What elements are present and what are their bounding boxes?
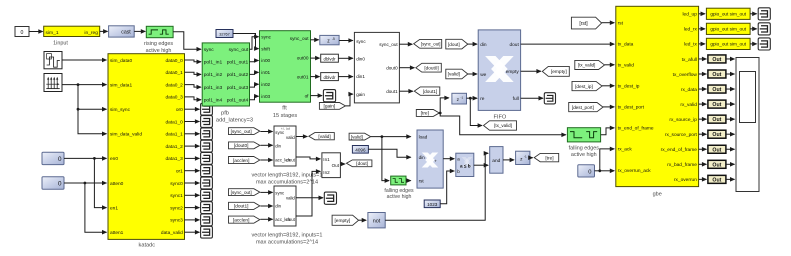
from tag dout0 to acc0 [229,142,274,149]
terminator for katadc data1_3 [185,153,213,165]
svg-text:dout: dout [286,217,295,222]
wire and to delay z-1 [503,158,515,163]
terminator for katadc sync2 [185,202,213,214]
from tag dout to fifo din [446,39,478,49]
svg-text:[acclen]: [acclen] [233,217,250,223]
svg-text:tx_end_of_frame: tx_end_of_frame [618,126,654,132]
svg-text:pol1_in2: pol1_in2 [204,72,223,78]
terminator for fifo full [521,93,556,104]
svg-text:din1: din1 [356,74,365,79]
svg-text:sync3: sync3 [170,218,183,224]
svg-text:Out: Out [712,117,721,123]
goto tag dout1 [399,87,439,95]
terminator for katadc sync1 [185,189,213,201]
svg-text:din: din [480,42,487,48]
svg-text:in_reg: in_reg [84,30,98,36]
svg-text:data1_1: data1_1 [165,132,183,138]
goto tag dout [340,160,372,167]
goto tag empty [521,66,570,76]
source block pulse train [44,74,62,92]
constant 0 for en0 en1 [42,152,64,164]
svg-text:rx_bad_frame: rx_bad_frame [667,162,697,168]
svg-text:+: + [434,159,437,164]
svg-text:15 stages: 15 stages [273,113,297,119]
svg-text:4096: 4096 [355,148,366,153]
svg-text:[acclen]: [acclen] [233,158,250,164]
from tag sync_out to acc1 [229,189,274,196]
svg-text:[empty]: [empty] [551,69,567,75]
svg-text:[gain]: [gain] [324,104,336,110]
wire counter to comparator a [443,156,455,161]
wire convert0 to quant din0 [338,56,353,61]
from tag dest_port [569,103,615,112]
svg-text:tx_dest_ip: tx_dest_ip [618,84,640,90]
svg-text:tx_afull: tx_afull [682,57,697,63]
svg-text:Out: Out [332,163,340,168]
svg-text:gpio_out sim_out: gpio_out sim_out [710,42,746,47]
svg-text:or0: or0 [176,107,183,113]
svg-text:falling edges: falling edges [569,146,600,152]
svg-text:rx_valid: rx_valid [680,102,697,108]
svg-text:Out: Out [712,162,721,168]
block fft [260,31,311,119]
svg-text:add_latency=3: add_latency=3 [216,117,253,123]
from tag tre [416,110,439,117]
svg-text:[tre]: [tre] [421,111,429,117]
from tag dout1 to acc1 [229,202,274,209]
svg-text:sim_data_valid: sim_data_valid [110,132,142,138]
wire pfb pol1_out1 to fft in00 [250,58,260,63]
from tag gain [319,92,353,110]
wire pfb pol1_out2 to fft in01 [250,70,260,75]
svg-text:[sync_out]: [sync_out] [421,42,441,47]
svg-text:sync: sync [204,48,215,53]
wire falling edge to counter rst [406,178,412,183]
svg-text:gpio_out sim_out: gpio_out sim_out [710,27,746,32]
svg-text:gpio_out sim_out: gpio_out sim_out [710,12,746,17]
svg-text:of: of [305,94,310,99]
svg-text:Out: Out [712,102,721,108]
svg-text:[tre]: [tre] [545,155,553,161]
svg-text:tx_valid: tx_valid [618,63,635,69]
svg-text:[sync_out]: [sync_out] [231,129,252,134]
svg-text:In1: In1 [323,157,330,162]
terminator for katadc sync0 [185,177,213,189]
svg-text:[valid]: [valid] [351,134,363,139]
svg-text:dout1: dout1 [386,89,398,94]
svg-text:[dest_port]: [dest_port] [572,105,594,110]
outport tx_overflow [699,70,736,78]
svg-text:dblvdr: dblvdr [324,56,336,61]
svg-text:full: full [513,96,519,102]
outport rx_source_port [699,130,736,138]
terminator for katadc data1_2 [185,140,213,152]
svg-text:vector length=8192, inputs=1: vector length=8192, inputs=1 [252,233,323,239]
block quant subsystem [354,32,399,103]
source block pulse generator [44,52,62,69]
svg-text:rising edges: rising edges [144,41,173,47]
svg-text:dblvdr: dblvdr [324,75,336,80]
wire acc1 valid to terminator [296,192,337,204]
svg-text:pol1_out3: pol1_out3 [227,85,249,91]
svg-text:tx_overflow: tx_overflow [673,72,698,78]
block katadc [108,54,185,249]
wire pfb pol1_out4 to fft in03 [250,94,260,100]
svg-text:active high: active high [387,194,412,200]
svg-text:en0: en0 [110,156,118,162]
goto tag tx_valid [484,121,517,130]
svg-text:[tx_valid]: [tx_valid] [578,63,595,68]
svg-text:1023: 1023 [427,202,438,207]
svg-text:[dest_ip]: [dest_ip] [575,84,593,89]
svg-text:rst: rst [618,21,624,27]
svg-text:pol1_in1: pol1_in1 [204,60,223,66]
svg-text:[tx_valid]: [tx_valid] [494,123,512,128]
wire 4096 to counter din [368,149,411,159]
svg-text:rst: rst [419,179,425,184]
svg-text:data0_3: data0_3 [165,95,183,101]
terminator for fft of [311,90,336,102]
block edge detect rising edges active high [144,26,173,54]
from tag valid to fifo we [446,69,478,79]
svg-text:led_tx: led_tx [684,42,697,48]
svg-text:active high: active high [571,152,597,158]
constant 0 (sim input) [15,27,29,37]
svg-text:dout: dout [509,42,519,48]
svg-text:data1_3: data1_3 [165,156,183,162]
svg-text:atten0: atten0 [110,181,124,187]
wire 1023 to comparator b [440,169,455,204]
svg-text:din0: din0 [356,57,365,62]
svg-text:empty: empty [506,69,520,75]
wire pfb pol1_out3 to fft in02 [250,82,260,87]
wire shift constant to fft shift [233,34,259,51]
svg-text:rx_source_port: rx_source_port [665,132,698,138]
block cast [109,26,135,37]
svg-text:dout0: dout0 [386,65,398,70]
svg-text:sync: sync [275,190,285,195]
terminator for katadc data1_1 [185,128,213,140]
block accumulator 0 [274,126,296,166]
wire in_reg to cast [100,29,109,34]
svg-text:sync_out: sync_out [290,36,309,41]
svg-text:sync_out: sync_out [379,42,398,47]
svg-text:or1: or1 [176,169,183,175]
svg-text:en1: en1 [110,205,118,211]
block falling edge 1 [384,176,414,200]
svg-text:data0_2: data0_2 [165,82,183,88]
svg-text:valid: valid [286,195,295,200]
wire atten constant to katadc atten0 atten1 [64,181,107,235]
convert block 1 [311,73,339,81]
svg-text:out01: out01 [297,75,309,80]
block sim_1 / in_reg (1input) [44,26,100,46]
svg-text:tx_dest_port: tx_dest_port [618,105,645,111]
goto tag sync_out [399,39,441,48]
wire katadc data0_3 to pfb pol1_in4 [185,97,202,102]
svg-text:gain: gain [356,92,365,97]
wire 0 to gbe rx_ack rx_overrun_ack [595,147,616,174]
svg-text:dout: dout [286,158,295,163]
wire katadc data0_1 to pfb pol1_in2 [185,72,202,77]
svg-text:din: din [275,144,281,149]
svg-text:[sync_out]: [sync_out] [231,190,252,195]
wire rising edge to pfb sync [173,32,202,52]
svg-text:load: load [419,135,428,140]
svg-text:Out: Out [712,147,721,153]
svg-text:pol1_out1: pol1_out1 [227,60,249,66]
svg-text:shift: shift [261,46,270,51]
wire delay to fifo re and tx_valid goto [467,96,483,128]
gpio_out block for led_rx [699,23,771,35]
block gbe [616,6,699,197]
svg-text:not: not [373,219,381,225]
svg-text:Out: Out [712,132,721,138]
svg-text:din: din [419,155,426,160]
svg-text:-1: -1 [461,95,464,99]
block comparator a<=b [456,153,474,176]
svg-text:[dout1]: [dout1] [234,204,249,210]
outport rx_bad_frame [699,160,736,168]
wire source2 to katadc sim_data1 sim_sync sim_data_valid [62,82,107,136]
svg-text:Out: Out [712,72,721,78]
svg-text:and: and [492,158,500,164]
goto tag dout0 [399,63,441,72]
svg-text:tx_data: tx_data [618,42,634,48]
wire fifo dout to gbe tx_data [521,42,615,47]
svg-text:[dout0]: [dout0] [424,65,438,70]
goto tag valid [309,133,335,140]
svg-text:sim_data1: sim_data1 [110,82,132,88]
outport rx_valid [699,100,736,108]
svg-text:active high: active high [146,48,172,54]
svg-text:0: 0 [58,156,62,163]
constant 0 for rx_ack [578,165,595,177]
wire convert1 to quant din1 [338,74,353,79]
wire source1 to katadc sim_data0 [62,58,107,63]
svg-text:sync0: sync0 [170,181,183,187]
svg-text:In2: In2 [323,170,330,175]
wire acc1 dout to In2 [296,169,321,216]
wire cast to rising edge block [134,29,146,34]
wire valid to falling edge [382,137,390,183]
block FIFO [478,30,520,121]
svg-text:gbe: gbe [653,192,662,198]
svg-text:re: re [480,96,485,102]
svg-text:[dout0]: [dout0] [234,143,249,149]
terminator for katadc or0 [185,103,213,115]
wire constant0 to sim_1 [29,29,44,34]
from tag acclen to acc0 [229,157,274,164]
svg-text:sync1: sync1 [170,193,183,199]
svg-text:[dout1]: [dout1] [423,89,437,94]
svg-text:[dout]: [dout] [448,42,460,47]
svg-text:in01: in01 [261,70,270,75]
from tag empty to not [332,215,367,225]
constant 0 for atten0 atten1 [42,177,64,189]
svg-text:rx_overrun_ack: rx_overrun_ack [618,168,652,174]
svg-text:pol1_in3: pol1_in3 [204,85,223,91]
svg-text:valid: valid [286,135,295,140]
block and gate [490,147,503,174]
svg-text:sim_sync: sim_sync [110,107,131,113]
terminator for katadc or1 [185,165,213,177]
block falling edge 2 eof [567,128,600,158]
svg-text:0: 0 [588,169,591,175]
wire tre to delay and eof branch [439,96,567,138]
svg-text:rx_end_of_frame: rx_end_of_frame [661,147,698,153]
wire delay to quant sync [339,38,354,43]
svg-text:Out: Out [712,57,721,63]
from tag sync_out to acc0 [229,128,274,135]
outport rx_overrun [699,175,736,183]
svg-text:[rst]: [rst] [579,21,588,27]
wire acc0 valid to goto valid [296,134,308,139]
wire falling edge2 to gbe tx_end_of_frame [601,126,615,135]
svg-text:pol1_out4: pol1_out4 [227,97,249,103]
wire comparator to and [474,163,489,168]
wire pfb sync_out to fft sync [250,34,260,49]
svg-text:pol1_out2: pol1_out2 [227,72,249,78]
svg-text:led_rx: led_rx [684,27,698,33]
svg-text:1input: 1input [53,41,68,47]
svg-text:in03: in03 [261,94,270,99]
wire katadc data0_0 to pfb pol1_in1 [185,60,202,65]
svg-text:-1: -1 [524,155,527,159]
svg-text:fft: fft [282,106,287,112]
outport rx_data [699,85,736,93]
block not [368,213,385,228]
constant 4096 [352,146,368,154]
svg-text:data_valid: data_valid [161,230,183,236]
block counter [417,130,443,188]
convert block 0 [311,54,339,62]
wire en constant to katadc en0 en1 [64,156,107,210]
block accumulator 1 [274,186,296,226]
svg-text:in00: in00 [261,58,270,63]
svg-text:32767: 32767 [219,33,230,37]
svg-text:FIFO: FIFO [494,114,507,120]
delay z-5 [311,35,340,44]
svg-text:katadc: katadc [139,242,156,248]
svg-text:max accumulations=2^14: max accumulations=2^14 [256,179,318,185]
svg-text:din: din [275,204,281,209]
svg-text:rx_ack: rx_ack [618,147,633,153]
gpio_out block for led_tx [699,38,771,50]
svg-text:sync2: sync2 [170,205,183,211]
mux display block [736,58,759,192]
svg-text:0: 0 [58,180,62,187]
svg-text:in02: in02 [261,82,270,87]
svg-text:Out: Out [712,87,721,93]
svg-text:max accumulations=2^14: max accumulations=2^14 [256,240,318,246]
gpio_out block for led_up [699,8,771,20]
svg-text:pfb: pfb [221,111,229,117]
svg-text:data1_2: data1_2 [165,144,183,150]
svg-text:data1_0: data1_0 [165,119,183,125]
text acc1 parameters [252,233,323,246]
svg-text:[dout]: [dout] [356,161,368,166]
from tag acclen to acc1 [229,216,274,223]
svg-text:[empty]: [empty] [334,218,350,224]
text acc0 parameters [252,172,323,185]
delay z-1 after and [516,151,530,164]
svg-text:Out: Out [712,177,721,183]
constant 1023 [424,200,440,208]
svg-text:we: we [480,73,486,78]
delay z-1 before fifo re [452,93,467,104]
outport rx_end_of_frame [699,145,736,153]
svg-text:led_up: led_up [682,12,697,18]
svg-text:[valid]: [valid] [318,134,330,139]
wire acc0 dout to In1 [296,157,321,162]
from tag rst [571,17,615,29]
svg-text:pol1_in4: pol1_in4 [204,97,223,103]
svg-text:rx_source_ip: rx_source_ip [669,117,697,123]
wire not to and input [385,151,489,220]
terminator for katadc sync3 [185,214,213,226]
svg-text:[valid]: [valid] [448,72,460,77]
block pfb [202,43,253,123]
svg-text:+/- Inf: +/- Inf [281,127,290,131]
from tag tx_valid [575,60,615,69]
svg-text:a ≤ b: a ≤ b [460,163,471,168]
outport tx_afull [699,55,736,63]
svg-text:data0_0: data0_0 [165,58,183,64]
svg-text:rx_overrun: rx_overrun [674,177,697,183]
terminator for katadc data1_0 [185,116,213,128]
constant fft shift 32767 [216,30,233,38]
svg-text:sync_out: sync_out [229,47,249,53]
svg-text:sim_1: sim_1 [46,30,59,36]
from tag valid to counter load [349,133,411,140]
svg-text:0: 0 [21,30,24,36]
svg-text:atten1: atten1 [110,230,124,236]
terminator for katadc data_valid [185,226,213,238]
svg-text:sync: sync [261,34,271,39]
svg-text:-5: -5 [332,37,335,41]
wire katadc data0_2 to pfb pol1_in3 [185,85,202,90]
block concat In1 In2 Out [322,153,341,178]
svg-text:sync: sync [356,39,366,44]
svg-text:sim_data0: sim_data0 [110,58,132,64]
from tag dest_ip [572,81,615,90]
svg-text:data0_1: data0_1 [165,70,183,76]
svg-text:cast: cast [121,30,131,36]
outport rx_source_ip [699,115,736,123]
svg-text:out00: out00 [297,56,309,61]
goto tag tre [528,153,559,161]
svg-text:rx_data: rx_data [681,87,697,93]
